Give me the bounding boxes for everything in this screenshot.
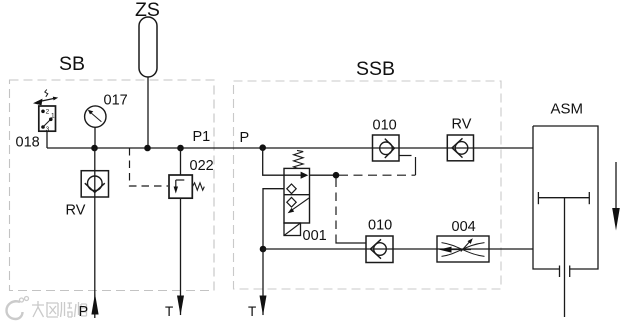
check valve RV (SSB) [447,135,473,161]
svg-text:SB: SB [59,53,85,75]
watermark glyphs [32,301,87,317]
wire pilot dashed down [335,179,337,237]
svg-text:P: P [240,130,250,146]
svg-text:RV: RV [66,203,86,219]
wire 001 outlet to T line [263,189,284,249]
arrow motion (down) [615,162,617,209]
svg-text:018: 018 [16,135,40,151]
arrow T drain (down, left) [177,296,184,316]
svg-text:022: 022 [190,158,214,174]
check valve 010 (lower) [366,236,393,263]
svg-text:2: 2 [46,109,50,116]
svg-text:T: T [248,304,256,319]
svg-text:T: T [165,304,173,319]
svg-text:001: 001 [303,228,327,244]
svg-text:1: 1 [51,113,55,120]
svg-text:P1: P1 [193,129,211,145]
wire gauge stem [94,127,96,148]
svg-text:010: 010 [368,218,392,234]
cartridge valve 001 [284,150,310,235]
wire pilot dashed right [339,174,416,176]
wire 022 stem top [180,148,182,175]
node J3 (022 junction) [177,145,184,152]
svg-text:RV: RV [452,117,472,133]
node J6 (T junction bottom) [260,246,267,253]
wire 022 to T [180,198,182,315]
svg-text:P: P [79,304,89,320]
arrow T drain (down, SSB) [260,296,267,316]
svg-text:ZS: ZS [135,0,160,21]
svg-text:3: 3 [46,126,50,133]
svg-text:004: 004 [452,219,476,235]
node J2 (ZS junction) [144,145,151,152]
dashed enclosure SB [10,80,215,291]
wire 018 branch [46,131,48,148]
relief valve 022 [169,175,204,198]
wire bottom line to ASM [263,248,533,250]
svg-text:SSB: SSB [356,58,395,80]
check valve 010 (upper) [373,135,400,161]
watermark logo [7,297,29,320]
pressure switch 018 [33,90,58,133]
wire ZS stem [147,77,149,148]
wire pilot to 010 lower [336,236,366,243]
wire pilot stub at 010 [399,156,416,176]
pressure gauge 017 [85,106,106,127]
actuator ASM body [533,126,598,317]
node J4 (P junction) [259,144,266,151]
svg-text:017: 017 [104,93,128,109]
node J5 (pilot junction) [333,172,340,179]
flow control valve 004 [437,236,489,262]
wire main P line [47,147,533,149]
wire T drop (SSB) [262,249,264,315]
dashed enclosure SSB [234,81,502,289]
node J1 (018/017 junction) [91,145,98,152]
svg-text:ASM: ASM [551,101,584,118]
wire 022 pilot (dashed) [130,148,169,186]
accumulator ZS [139,17,157,77]
check valve RV (SB) [81,171,108,197]
svg-text:010: 010 [373,118,397,134]
arrow P supply (up) [91,294,98,315]
wire RV drop to P [94,148,96,318]
wire P to valve 001 inlet [263,148,284,175]
wire 001 pilot out [310,174,337,176]
